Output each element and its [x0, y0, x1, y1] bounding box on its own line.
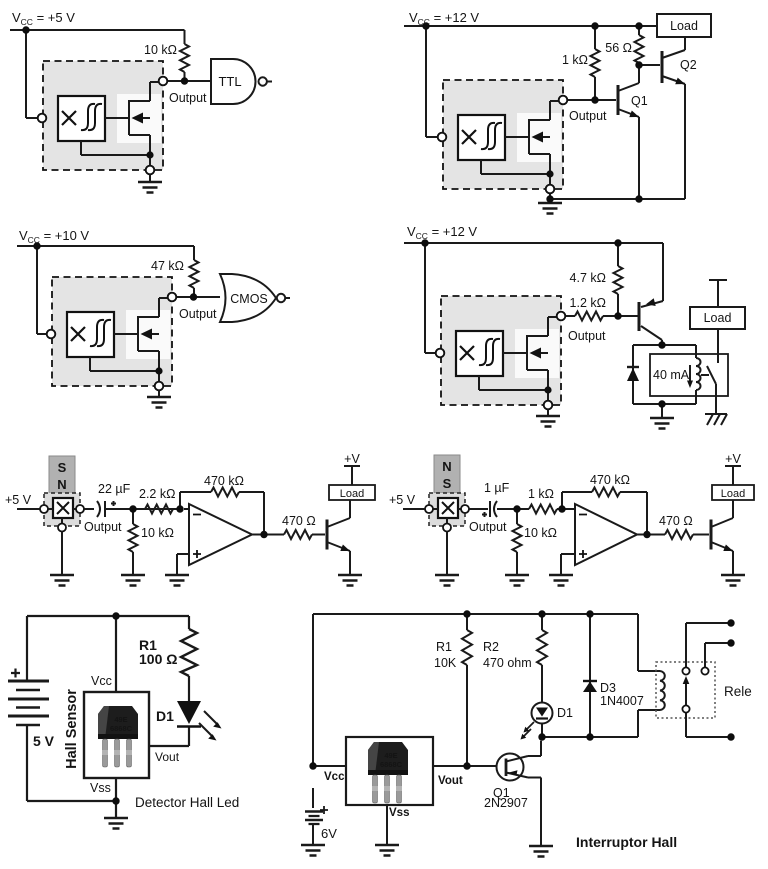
svg-text:+5 V: +5 V: [389, 493, 416, 507]
svg-text:Hall Sensor: Hall Sensor: [64, 689, 80, 769]
svg-text:10 kΩ: 10 kΩ: [141, 526, 174, 540]
svg-text:470 kΩ: 470 kΩ: [590, 473, 630, 487]
svg-text:10 kΩ: 10 kΩ: [524, 526, 557, 540]
svg-text:S: S: [58, 460, 67, 475]
svg-text:Vcc: Vcc: [324, 771, 345, 783]
svg-text:2.2 kΩ: 2.2 kΩ: [139, 487, 175, 501]
svg-text:2N2907: 2N2907: [484, 796, 528, 810]
svg-text:N: N: [442, 459, 451, 474]
svg-text:40 mA: 40 mA: [653, 368, 690, 382]
svg-text:S: S: [443, 476, 452, 491]
svg-text:47 kΩ: 47 kΩ: [151, 259, 184, 273]
svg-text:Vout: Vout: [438, 775, 463, 787]
svg-text:Output: Output: [84, 520, 122, 534]
svg-text:4.7 kΩ: 4.7 kΩ: [570, 271, 606, 285]
svg-text:100 Ω: 100 Ω: [139, 651, 177, 667]
svg-text:Load: Load: [721, 488, 745, 500]
svg-text:Load: Load: [340, 488, 364, 500]
svg-text:VCC = +5 V: VCC = +5 V: [12, 10, 75, 27]
svg-text:R2: R2: [483, 640, 499, 654]
svg-text:470 Ω: 470 Ω: [659, 514, 693, 528]
svg-text:Load: Load: [670, 19, 698, 33]
svg-text:Q1: Q1: [631, 94, 648, 108]
svg-text:22 µF: 22 µF: [98, 482, 131, 496]
svg-text:R1: R1: [436, 640, 452, 654]
svg-text:Detector Hall Led: Detector Hall Led: [135, 795, 239, 810]
svg-text:N: N: [57, 477, 66, 492]
svg-text:D1: D1: [557, 706, 573, 720]
svg-text:Output: Output: [169, 91, 207, 105]
svg-text:6V: 6V: [321, 826, 337, 841]
svg-text:470 ohm: 470 ohm: [483, 656, 532, 670]
svg-text:Vout: Vout: [155, 750, 180, 764]
svg-text:1 µF: 1 µF: [484, 481, 510, 495]
svg-text:1 kΩ: 1 kΩ: [528, 487, 554, 501]
svg-text:10 kΩ: 10 kΩ: [144, 43, 177, 57]
svg-text:VCC = +12 V: VCC = +12 V: [409, 10, 479, 27]
svg-text:Vss: Vss: [90, 781, 111, 795]
svg-text:Vss: Vss: [389, 807, 409, 819]
svg-text:D1: D1: [156, 708, 174, 724]
svg-text:5 V: 5 V: [33, 733, 55, 749]
svg-text:+5 V: +5 V: [5, 493, 32, 507]
svg-text:470 kΩ: 470 kΩ: [204, 474, 244, 488]
svg-text:Q2: Q2: [680, 58, 697, 72]
svg-text:+V: +V: [725, 452, 741, 466]
svg-text:Output: Output: [469, 520, 507, 534]
svg-text:Rele: Rele: [724, 684, 752, 699]
svg-text:VCC = +10 V: VCC = +10 V: [19, 228, 89, 245]
svg-text:56 Ω: 56 Ω: [605, 41, 632, 55]
svg-text:10K: 10K: [434, 656, 457, 670]
svg-text:Interruptor Hall: Interruptor Hall: [576, 834, 677, 850]
svg-text:1N4007: 1N4007: [600, 694, 644, 708]
svg-text:Load: Load: [704, 311, 732, 325]
svg-text:VCC = +12 V: VCC = +12 V: [407, 224, 477, 241]
svg-text:TTL: TTL: [218, 74, 241, 89]
svg-text:Vcc: Vcc: [91, 674, 112, 688]
svg-text:+V: +V: [344, 452, 360, 466]
svg-text:Output: Output: [179, 307, 217, 321]
svg-text:D3: D3: [600, 681, 616, 695]
svg-text:CMOS: CMOS: [230, 292, 268, 306]
svg-text:1 kΩ: 1 kΩ: [562, 53, 588, 67]
svg-text:1.2 kΩ: 1.2 kΩ: [570, 296, 606, 310]
svg-text:470 Ω: 470 Ω: [282, 514, 316, 528]
svg-text:Output: Output: [568, 329, 606, 343]
svg-text:Output: Output: [569, 109, 607, 123]
